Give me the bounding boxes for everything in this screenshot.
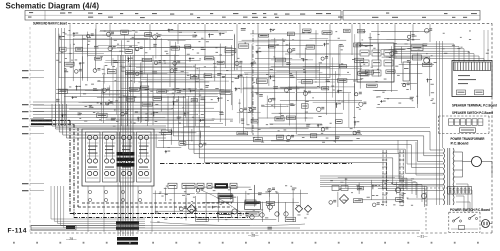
svg-text:F-114: F-114 (8, 228, 27, 235)
svg-text:—28—: —28— (66, 237, 77, 241)
svg-text:—31—: —31— (417, 235, 428, 239)
svg-text:—28—: —28— (248, 234, 259, 238)
svg-text:Schematic Diagram (4/4): Schematic Diagram (4/4) (6, 1, 100, 11)
svg-text:POWER SWITCH P.C.Board: POWER SWITCH P.C.Board (450, 208, 490, 212)
svg-text:P.C.Board: P.C.Board (451, 141, 469, 145)
svg-text:SPEAKER SWITCH P.C.Board: SPEAKER SWITCH P.C.Board (452, 111, 493, 115)
svg-text:SPEAKER TERMINAL P.C.Board: SPEAKER TERMINAL P.C.Board (452, 104, 497, 108)
svg-text:SURROUND MAIN P.C.Board: SURROUND MAIN P.C.Board (33, 21, 67, 25)
